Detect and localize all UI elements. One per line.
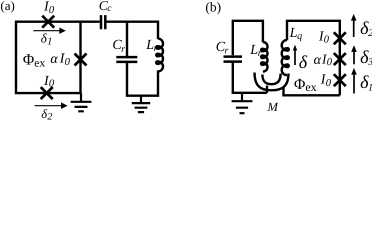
wire: loop (a) right branch vertical — [79, 22, 81, 93]
svg-text:α: α — [314, 53, 322, 68]
inductor Lq coil (b) — [282, 40, 289, 75]
junction J5 (alpha I0) middle right (b) — [334, 53, 346, 65]
wire: resonator loop (b) left above Cr + top — [233, 21, 263, 55]
mutual coupling arc outer — [255, 73, 289, 91]
capacitor Cc plates (a) — [101, 15, 105, 29]
arrow delta3 (b right) — [353, 51, 355, 65]
svg-text:α: α — [50, 52, 58, 67]
wire: Cc to top-right corner down to inductor — [107, 22, 159, 39]
inductor Lr (a) coil — [156, 39, 163, 72]
svg-text:M: M — [267, 100, 279, 114]
capacitor Cr plates (b) — [224, 57, 243, 62]
svg-text:(a): (a) — [0, 0, 14, 13]
arrow delta2 (a) — [35, 105, 62, 107]
wire: loop (a) top-left, left side, bottom — [16, 22, 100, 93]
capacitor Cr plates (a) — [116, 57, 137, 62]
capacitor Cr branch upper wire (a) — [126, 22, 128, 57]
wire: resonator coupling vertical (b) — [266, 86, 268, 93]
ground G1 loop (a) — [71, 93, 92, 111]
junction J4 (I0) top right (b) — [334, 32, 346, 44]
wire: resonator loop (b) left below Cr + bottom — [233, 62, 267, 93]
arrow delta2 (b right) — [353, 20, 355, 38]
ground G3 (b) — [232, 93, 253, 113]
svg-text:(b): (b) — [205, 0, 221, 15]
arrow delta1 (a) — [33, 30, 60, 32]
capacitor Cr lower wire (a) — [126, 62, 128, 96]
junction J1 (I0) top of loop (a) — [42, 16, 54, 28]
junction J6 (I0) bottom right (b) — [334, 74, 346, 86]
arrow delta1 (b right) — [353, 74, 355, 94]
wire: qubit loop (b) top + right side — [287, 21, 340, 96]
svg-text:δ: δ — [299, 52, 308, 72]
inductor Lr (b) coil — [261, 42, 267, 72]
arrow delta inside qubit loop (b) — [294, 50, 296, 66]
wire: below Lr to bottom (a) — [126, 70, 158, 95]
junction J2 (alpha I0) right branch of loop (a) — [75, 54, 87, 66]
junction J3 (I0) bottom of loop (a) — [41, 87, 53, 99]
ground G2 resonator (a) — [132, 96, 150, 112]
mutual coupling arc inner — [262, 74, 280, 85]
wire: qubit coupling vertical + bottom (b) — [284, 87, 340, 96]
